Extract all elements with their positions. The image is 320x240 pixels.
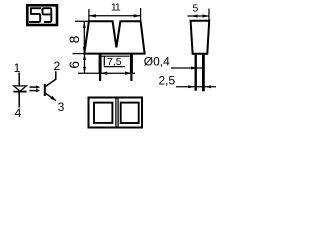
svg-text:4: 4 xyxy=(15,106,22,120)
svg-text:8: 8 xyxy=(66,35,82,43)
svg-text:2: 2 xyxy=(54,59,61,73)
svg-text:2,5: 2,5 xyxy=(159,73,176,87)
svg-text:6: 6 xyxy=(66,61,82,69)
svg-text:3: 3 xyxy=(58,100,65,114)
svg-text:5: 5 xyxy=(192,2,198,14)
svg-text:11: 11 xyxy=(111,2,121,14)
svg-text:7,5: 7,5 xyxy=(107,56,122,68)
svg-text:Ø0,4: Ø0,4 xyxy=(144,55,170,69)
